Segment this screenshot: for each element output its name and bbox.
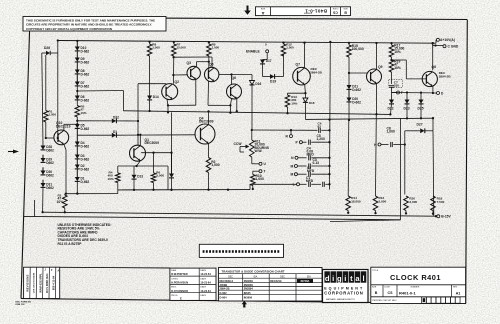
wire Q10 collector to diode chain xyxy=(63,124,65,130)
svg-text:C GND: C GND xyxy=(448,45,459,49)
resistor R8 xyxy=(148,41,150,43)
svg-text:WAM 6253 RPL: WAM 6253 RPL xyxy=(38,273,42,293)
svg-text:ENG.: ENG. xyxy=(171,287,177,289)
svg-text:R11 IS A B275P: R11 IS A B275P xyxy=(58,242,83,246)
resistor R18 7500 xyxy=(431,196,436,211)
terminal F xyxy=(392,92,397,94)
wire Q4 collector to mid rail xyxy=(208,111,210,124)
diode D23 xyxy=(405,100,410,104)
svg-text:D-662: D-662 xyxy=(352,88,361,92)
svg-text:D32: D32 xyxy=(113,116,119,120)
wire Q2 base feed xyxy=(77,90,123,93)
svg-text:IN3606: IN3606 xyxy=(244,296,253,300)
svg-text:D-662: D-662 xyxy=(81,180,90,184)
svg-text:NUMBER: NUMBER xyxy=(303,12,312,14)
svg-text:H.PERAYBUN: H.PERAYBUN xyxy=(171,281,188,285)
svg-text:3,000: 3,000 xyxy=(409,200,417,204)
svg-text:REV.: REV. xyxy=(453,287,458,289)
wire mid-right vertical x400 box xyxy=(400,118,402,220)
svg-text:DATE: DATE xyxy=(200,269,206,272)
resistor R2 1000 (Q4 emitter) xyxy=(206,158,211,173)
wire D15 to R11 node xyxy=(251,85,253,130)
svg-text:SIZE: SIZE xyxy=(343,7,348,9)
svg-text:NUMBER: NUMBER xyxy=(411,287,420,289)
svg-text:CORPORATION: CORPORATION xyxy=(324,291,363,296)
svg-text:IN645: IN645 xyxy=(244,291,251,295)
bottom band top line xyxy=(60,266,170,269)
resistor R7 xyxy=(173,41,175,43)
svg-text:A1: A1 xyxy=(456,292,461,296)
svg-text:MAYNARD. MASSACHUSETTS: MAYNARD. MASSACHUSETTS xyxy=(326,298,355,301)
top strip cell CS (rotated) xyxy=(332,7,338,15)
svg-text:CCW: CCW xyxy=(234,142,243,146)
svg-text:D14: D14 xyxy=(153,95,159,99)
resistor R12 xyxy=(282,41,284,43)
svg-text:DEC: DEC xyxy=(228,276,233,278)
svg-text:10%: 10% xyxy=(108,177,114,181)
resistor R9 xyxy=(208,41,210,43)
diode D10 xyxy=(76,41,78,47)
svg-text:809 4 11-64: 809 4 11-64 xyxy=(52,275,56,290)
diode D16b below Q2 xyxy=(171,153,173,174)
svg-text:B-15V: B-15V xyxy=(441,215,451,219)
wire bottom distribution y189-190 xyxy=(118,189,250,191)
svg-text:D662: D662 xyxy=(46,148,54,152)
resistor R6 5000 xyxy=(153,153,155,173)
svg-text:15,000: 15,000 xyxy=(177,46,187,50)
svg-text:R.W.PORTER: R.W.PORTER xyxy=(171,272,188,276)
diode D21 xyxy=(347,85,352,89)
svg-text:D-662: D-662 xyxy=(220,291,228,295)
diode D19 xyxy=(263,76,271,78)
resistor R5 xyxy=(76,100,78,106)
svg-text:10%: 10% xyxy=(57,200,64,204)
lower bus wire y119.5 xyxy=(305,118,433,119)
svg-text:D-662: D-662 xyxy=(81,84,90,88)
diode D14 xyxy=(147,96,152,100)
svg-text:2N2894: 2N2894 xyxy=(244,287,254,291)
diode D1 horizontal xyxy=(77,134,112,136)
potentiometer R11 20000 BOURNS xyxy=(251,130,253,140)
svg-text:B: B xyxy=(375,291,378,295)
wire R4 D13 top bus xyxy=(118,165,168,167)
capacitor C2 with terminal M2 xyxy=(294,173,297,176)
svg-text:PROD.: PROD. xyxy=(171,295,178,297)
svg-text:DRB 102: DRB 102 xyxy=(16,304,26,306)
svg-text:D.O'CONNOR: D.O'CONNOR xyxy=(171,289,188,293)
wire Q1 emitter to node xyxy=(137,161,141,166)
top strip number B401-0-1 (rotated) xyxy=(305,8,327,13)
svg-text:10%: 10% xyxy=(81,111,87,115)
wire Q2 emitter down xyxy=(167,99,168,105)
svg-text:EIA: EIA xyxy=(254,275,258,278)
wire R15 down to D21 xyxy=(348,57,350,85)
title block xyxy=(371,267,466,303)
main diode column x77 xyxy=(76,40,78,42)
gnd rail wire to terminal C xyxy=(432,43,434,46)
svg-text:MFD: MFD xyxy=(307,169,315,173)
svg-text:10%: 10% xyxy=(394,66,401,70)
svg-text:THIS SCHEMATIC IS FURNISHED ON: THIS SCHEMATIC IS FURNISHED ONLY FOR TES… xyxy=(26,18,155,22)
svg-text:E: E xyxy=(180,297,182,301)
wire to R12 column xyxy=(283,54,285,77)
svg-text:d: d xyxy=(325,274,330,283)
terminal U xyxy=(259,162,262,165)
wire Q10 emitter down xyxy=(64,144,66,149)
wire Q9 emitter column down to R16 xyxy=(375,114,378,196)
wire Q6 emitter down to rail xyxy=(236,97,238,111)
resistor R17 15000 xyxy=(390,42,392,44)
wire Q7 collector to rail xyxy=(304,43,306,68)
svg-text:DEC: DEC xyxy=(280,276,285,278)
wire Q2 column down to Q1 bus xyxy=(171,112,173,152)
svg-text:CODE: CODE xyxy=(384,287,390,289)
diode D5 xyxy=(75,124,80,128)
svg-text:1,000: 1,000 xyxy=(256,177,265,181)
diode D25 xyxy=(419,100,424,104)
svg-text:Q5: Q5 xyxy=(209,62,214,66)
svg-text:D18: D18 xyxy=(309,101,315,105)
svg-text:Q6: Q6 xyxy=(232,76,237,80)
svg-text:Q7: Q7 xyxy=(296,63,301,67)
svg-text:1,000: 1,000 xyxy=(387,130,396,134)
wire cross-couple vertical x138 xyxy=(137,84,139,146)
wire y193 lower left xyxy=(65,193,118,195)
top title strip box xyxy=(256,7,351,16)
schematic bottom border line xyxy=(24,216,401,219)
wire Q3 base xyxy=(173,74,187,76)
svg-text:R401-0-1: R401-0-1 xyxy=(399,291,416,296)
svg-text:L: L xyxy=(293,183,295,187)
terminal B -15V xyxy=(437,215,440,218)
svg-text:10-23-64: 10-23-64 xyxy=(200,272,211,276)
wire Q6 collector up xyxy=(231,75,233,85)
wire Q8 collector to rail xyxy=(432,43,434,70)
-15V rail xyxy=(43,212,436,216)
svg-text:CS: CS xyxy=(332,10,337,14)
svg-text:18,000: 18,000 xyxy=(351,199,361,203)
capacitor C4 with terminal N xyxy=(295,156,298,159)
top +10V rail wire xyxy=(58,41,436,44)
resistor R10 xyxy=(252,171,254,174)
top strip cell A (rotated) xyxy=(260,7,265,16)
digital logo box xyxy=(323,270,369,303)
diode D22 xyxy=(391,93,393,100)
svg-text:10-23-64: 10-23-64 xyxy=(200,281,211,285)
svg-text:2894-2B: 2894-2B xyxy=(310,70,323,74)
svg-text:M: M xyxy=(291,173,294,177)
svg-text:A+10V(A): A+10V(A) xyxy=(440,38,455,42)
wire stub at x34.5 xyxy=(34,200,36,217)
svg-text:DEC2219: DEC2219 xyxy=(270,279,282,283)
svg-text:2894-2B: 2894-2B xyxy=(220,287,230,291)
wire R11 to terminal U xyxy=(251,157,253,164)
wire Q8 emitter to terminal D xyxy=(432,86,434,93)
wire Q6 emitter to bus xyxy=(230,99,231,106)
svg-text:DEC3009: DEC3009 xyxy=(145,141,160,145)
svg-text:1,000: 1,000 xyxy=(49,113,57,117)
svg-text:SIZE: SIZE xyxy=(372,287,377,289)
svg-text:D662: D662 xyxy=(46,161,54,165)
svg-text:CHK CHG NO DATE: CHK CHG NO DATE xyxy=(32,272,35,293)
svg-text:2N3639: 2N3639 xyxy=(244,279,254,283)
resistor R20 3000 xyxy=(404,196,409,211)
svg-text:D13: D13 xyxy=(137,174,143,178)
svg-text:D-662: D-662 xyxy=(81,49,90,53)
diode D16 hollow xyxy=(250,81,255,85)
diode D6 xyxy=(75,96,80,100)
diode D18 hollow xyxy=(304,93,306,98)
svg-text:M: M xyxy=(291,164,294,168)
node diode chain mid xyxy=(76,86,78,96)
transistor Q5 xyxy=(205,67,219,81)
resistor R13 xyxy=(288,92,306,94)
printed circuit rev boxes xyxy=(422,297,427,303)
svg-text:D-662: D-662 xyxy=(352,100,361,104)
svg-text:10%: 10% xyxy=(291,102,297,106)
revisions table xyxy=(24,267,60,298)
diode D17 xyxy=(266,53,268,60)
wire Q3 emitter down xyxy=(195,79,197,105)
svg-text:D-662: D-662 xyxy=(81,72,90,76)
capacitor C3 with terminal M xyxy=(294,165,297,168)
resistor R4 400 xyxy=(117,166,119,173)
wire Q5 Q6 emitter bus xyxy=(208,104,230,106)
transistor Q2 xyxy=(162,84,178,100)
svg-text:0.13: 0.13 xyxy=(313,161,320,165)
svg-text:10-23-64: 10-23-64 xyxy=(200,289,211,293)
svg-text:MFD: MFD xyxy=(307,152,315,156)
svg-text:T: T xyxy=(264,170,266,174)
svg-text:W.W.: W.W. xyxy=(255,149,263,153)
sheet border frame xyxy=(21,18,467,304)
wire vertical x58 from top rail xyxy=(57,41,59,139)
terminal R xyxy=(290,129,292,131)
capacitor C1 with terminal L xyxy=(297,183,300,186)
wire Q1 collector up xyxy=(139,135,141,146)
svg-text:1,200: 1,200 xyxy=(317,137,326,141)
resistor R1 xyxy=(45,55,47,111)
svg-text:Q9: Q9 xyxy=(378,65,383,69)
wire D23 D25 top bus to Q8 emitter node xyxy=(392,92,433,94)
mid rail wire y111 xyxy=(123,111,390,115)
wire Q7 emitter down xyxy=(304,85,307,94)
wire Q1 base right xyxy=(141,152,171,154)
wire R9 to Q3 collector crossover xyxy=(208,56,210,70)
wire H cap node vertical xyxy=(404,131,406,195)
transistor diode conversion chart xyxy=(219,268,323,302)
wire Q8 base left and up xyxy=(406,78,426,80)
wire y83.7 to Q2 xyxy=(138,83,166,85)
svg-text:A: A xyxy=(261,11,264,16)
svg-text:DEC2219: DEC2219 xyxy=(56,124,71,128)
svg-text:COPYRIGHT 1964 BY DIGITAL EQUI: COPYRIGHT 1964 BY DIGITAL EQUIPMENT CORP… xyxy=(26,27,112,31)
wire cap ladder right rail from top rail xyxy=(329,42,332,190)
svg-text:SIZE: SIZE xyxy=(260,7,265,9)
terminal C GND xyxy=(443,45,446,48)
wire Q10 base node xyxy=(45,137,47,139)
diode D3 xyxy=(76,146,78,155)
diode D8 xyxy=(76,62,78,70)
svg-text:CLOCK R401: CLOCK R401 xyxy=(390,273,441,282)
wire x168 down to bottom bus xyxy=(167,166,169,190)
svg-text:D-662: D-662 xyxy=(81,157,90,161)
svg-text:i: i xyxy=(332,274,334,283)
diode D32 xyxy=(77,120,112,122)
svg-text:3009B: 3009B xyxy=(220,283,228,287)
svg-text:2N3009: 2N3009 xyxy=(244,283,254,287)
svg-text:D662: D662 xyxy=(46,173,54,177)
terminal A +10V(A) xyxy=(435,40,437,43)
svg-text:DATE: DATE xyxy=(200,294,206,297)
svg-text:DATE: DATE xyxy=(200,277,206,280)
svg-text:DRA.: DRA. xyxy=(171,269,177,272)
svg-text:Q3: Q3 xyxy=(187,61,192,65)
top title strip arrow xyxy=(244,6,251,15)
svg-text:TITLE: TITLE xyxy=(372,270,378,272)
svg-text:1,000: 1,000 xyxy=(211,163,220,167)
wire Q9 collector to rail xyxy=(376,43,378,70)
svg-text:CS: CS xyxy=(388,291,394,295)
svg-text:3,000: 3,000 xyxy=(379,200,387,204)
svg-text:D16: D16 xyxy=(255,82,261,86)
wire jog down to mid rail xyxy=(122,91,124,111)
wire Q5 emitter down xyxy=(207,81,210,105)
svg-text:D662: D662 xyxy=(46,186,54,190)
svg-text:D-662: D-662 xyxy=(81,98,90,102)
diode D13 xyxy=(133,166,135,175)
svg-text:2894-2B: 2894-2B xyxy=(439,74,452,78)
wire R7 node to Q5 collector xyxy=(172,56,174,58)
wire R13 bottom to mid rail xyxy=(287,107,289,113)
svg-text:D-662: D-662 xyxy=(81,144,90,148)
svg-text:7,500: 7,500 xyxy=(437,200,445,204)
top strip cell B (rotated) xyxy=(343,7,348,15)
svg-text:1,000: 1,000 xyxy=(286,46,294,50)
resistor R16 3000 xyxy=(373,196,378,211)
diode D1 vertical xyxy=(76,169,78,177)
resistor R14 18000 xyxy=(346,196,351,211)
transistor Q1 DEC3009 xyxy=(130,145,146,161)
svg-text:DEC3009: DEC3009 xyxy=(199,120,214,124)
diode D4 xyxy=(76,128,78,141)
svg-text:DEC3639-0: DEC3639-0 xyxy=(220,279,234,283)
svg-text:TRANSISTOR & DIODE CONVERSION: TRANSISTOR & DIODE CONVERSION CHART xyxy=(222,270,285,274)
wire left column from D26 down xyxy=(42,53,43,146)
resistor R19 47 xyxy=(389,60,394,72)
transistor Q10 DEC2219 xyxy=(54,130,69,145)
terminal D xyxy=(437,92,440,95)
wire Q5 base to Q6 collector to D16 xyxy=(219,74,232,76)
svg-text:l: l xyxy=(363,274,365,283)
capacitor C5 with terminal P xyxy=(299,141,302,144)
wire R15 column down to R14 xyxy=(347,120,350,196)
wire R7 column down to Q2 collector xyxy=(172,56,174,84)
svg-text:1,000: 1,000 xyxy=(152,46,160,50)
svg-text:D-664: D-664 xyxy=(220,296,228,300)
resistor R15 100000 xyxy=(348,42,350,44)
wire right column down to D27 xyxy=(432,117,434,119)
wire chain bottom to node xyxy=(76,181,78,193)
up arrow below chart xyxy=(242,301,247,308)
svg-text:PRINTED CIRCUIT REV.: PRINTED CIRCUIT REV. xyxy=(372,300,397,302)
transistor Q8 DEC2894-2B xyxy=(422,71,437,86)
wire Q3 Q2 emitter bus xyxy=(168,104,196,106)
wire R8 to D14 xyxy=(149,41,151,44)
svg-text:1,000: 1,000 xyxy=(212,46,220,50)
transistor Q4 DEC3009 xyxy=(195,124,215,144)
svg-text:D-662: D-662 xyxy=(81,167,90,171)
svg-text:EIA: EIA xyxy=(307,275,311,278)
svg-text:DATE: DATE xyxy=(200,286,206,289)
wire x433 down from D27 to -15V rail xyxy=(432,131,435,216)
svg-text:D1: D1 xyxy=(113,130,117,134)
svg-text:D26: D26 xyxy=(44,46,50,50)
svg-text:D-662: D-662 xyxy=(81,127,90,131)
edge connector strip xyxy=(199,244,283,257)
svg-text:330: 330 xyxy=(394,84,399,88)
svg-text:5,000: 5,000 xyxy=(156,174,164,178)
diode D7 xyxy=(76,74,78,82)
svg-text:i: i xyxy=(344,274,346,283)
wire Q9 base xyxy=(349,72,367,74)
wire D18 down jog to lower bus xyxy=(304,103,306,120)
diode D9 xyxy=(76,51,78,58)
svg-text:100,000: 100,000 xyxy=(352,47,364,51)
wire Q9 emitter down xyxy=(376,84,378,115)
diode D20 xyxy=(348,89,350,97)
svg-text:ENABLE: ENABLE xyxy=(246,50,261,54)
terminal T xyxy=(259,170,262,173)
wire mid-right horizontal to border xyxy=(330,220,401,222)
svg-text:CH'K'D: CH'K'D xyxy=(171,278,178,280)
wire R node rail y130 xyxy=(252,129,318,131)
fold mark arrow left xyxy=(13,150,19,154)
svg-text:Q8: Q8 xyxy=(432,65,437,69)
svg-text:g: g xyxy=(337,274,342,283)
transistor Q7 DEC2894-2B xyxy=(293,67,311,85)
wire Q4 emitter to R2a xyxy=(208,144,210,158)
resistor R2 47 10% xyxy=(64,194,66,195)
copyright note box xyxy=(23,17,166,32)
diode D2 xyxy=(76,159,78,165)
svg-text:D19: D19 xyxy=(270,79,276,83)
wire left chain to -15V rail xyxy=(42,187,44,212)
svg-text:Q2: Q2 xyxy=(175,80,180,84)
svg-text:CODE: CODE xyxy=(332,7,338,9)
transistor Q3 xyxy=(187,66,200,79)
diode chain D28-D31 xyxy=(41,146,46,150)
transistor Q9 xyxy=(367,69,382,84)
capacitor C7 330 with box xyxy=(389,85,394,87)
transistor Q6 xyxy=(227,84,242,99)
svg-text:IN748A: IN748A xyxy=(301,279,310,283)
svg-text:10%: 10% xyxy=(394,50,401,54)
svg-text:D27: D27 xyxy=(417,122,423,126)
svg-text:MFD: MFD xyxy=(306,179,314,183)
svg-text:RCV 9898 CHG: RCV 9898 CHG xyxy=(45,273,49,292)
drafting signature table xyxy=(170,268,216,300)
svg-text:D-662: D-662 xyxy=(81,60,90,64)
svg-text:A: A xyxy=(58,270,60,273)
svg-text:REVISIONS: REVISIONS xyxy=(26,274,30,291)
